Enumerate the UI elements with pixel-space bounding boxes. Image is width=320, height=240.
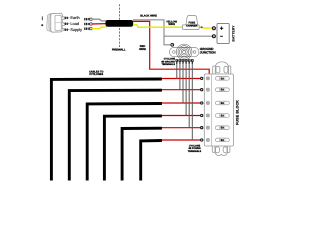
fuse row 6 terminal <box>200 138 203 141</box>
svg-text:WIRE: WIRE <box>139 48 146 51</box>
cyclone cable 4 <box>104 116 161 181</box>
fuse row 4 stud <box>206 114 209 117</box>
cyclone red power wire 3 <box>161 102 201 104</box>
switch OFF marker 0 <box>41 24 43 26</box>
earth bullet connector <box>84 18 92 21</box>
svg-text:WIRE: WIRE <box>168 23 175 26</box>
load terminal leader line <box>64 23 70 25</box>
svg-text:BATTERY: BATTERY <box>231 25 235 42</box>
svg-text:CYCLONES: CYCLONES <box>89 73 103 76</box>
firewall label <box>112 48 126 51</box>
ground terminal strip connector 4 <box>185 59 188 64</box>
cyclone cable 6 <box>141 141 162 181</box>
fuse row 1 stud <box>206 77 209 80</box>
fuse row 5 terminal <box>200 126 203 129</box>
fuse row 2 terminal <box>200 88 203 91</box>
ground terminal strip connector 5 <box>188 59 191 64</box>
svg-text:TERMINALS: TERMINALS <box>162 63 176 66</box>
ground wire 3 <box>182 64 184 103</box>
rocker switch rocker <box>55 15 61 30</box>
svg-text:5A: 5A <box>221 89 224 92</box>
fuse F4 5A <box>215 114 229 118</box>
label CABLES TO CYCLONES <box>89 71 103 77</box>
load bullet connector <box>84 23 92 26</box>
cyclone red power wire 1 <box>161 78 201 80</box>
label GROUND JUNCTION <box>200 47 217 55</box>
svg-text:JUNCTION: JUNCTION <box>200 51 217 55</box>
svg-text:Supply: Supply <box>70 27 82 32</box>
svg-text:4B GROUND: 4B GROUND <box>161 60 175 63</box>
fuse row 3 stud <box>206 101 209 104</box>
label Load <box>70 21 79 26</box>
fuse block top mounting ear <box>213 62 231 74</box>
fuse row 4 terminal <box>200 114 203 117</box>
svg-text:TERMINALS: TERMINALS <box>188 150 202 153</box>
svg-text:Load: Load <box>70 21 79 26</box>
cyclone cable 1 <box>51 79 161 181</box>
cyclone red power wire 6 <box>161 139 201 141</box>
svg-text:5A: 5A <box>221 77 224 80</box>
battery plus terminal <box>212 27 215 30</box>
svg-text:CYCLONE: CYCLONE <box>164 58 176 61</box>
svg-text:Earth: Earth <box>70 15 79 20</box>
battery BT1 <box>217 23 229 43</box>
ground terminal strip connector 3 <box>182 59 185 64</box>
svg-text:FIREWALL: FIREWALL <box>112 48 126 51</box>
yellow wire firewall to battery plus <box>133 25 213 28</box>
fuse F5 5A <box>215 126 229 130</box>
fuse row 5 stud <box>206 126 209 129</box>
fuse row 6 stud <box>206 138 209 141</box>
fuse row 2 stud <box>206 88 209 91</box>
ground terminal strip connector 1 <box>175 59 178 64</box>
svg-text:CARRIER: CARRIER <box>186 24 198 27</box>
ground junction ring terminal <box>171 43 174 46</box>
supply wire to grommet <box>92 27 107 29</box>
ground wire 5 <box>188 64 190 128</box>
svg-text:CYCLONE: CYCLONE <box>189 145 201 148</box>
load wire to grommet <box>92 23 107 25</box>
fuse row 1 terminal <box>200 77 203 80</box>
label RED WIRE <box>139 45 146 51</box>
cyclone red power wire 2 <box>161 89 201 91</box>
fuse row 3 terminal <box>200 101 203 104</box>
black wire branch to battery minus <box>164 35 213 37</box>
svg-text:4B POWER: 4B POWER <box>188 147 201 150</box>
ground terminal strip connector 2 <box>179 59 182 64</box>
label CYCLONE 4B GROUND TERMINALS <box>161 58 175 66</box>
fuse F1 5A <box>215 77 229 81</box>
label YELLOW WIRE <box>166 20 177 26</box>
rocker switch side face <box>47 14 51 31</box>
switch terminal tabs <box>62 17 65 31</box>
fuse carrier F1 <box>182 16 199 30</box>
earth terminal leader line <box>64 17 70 19</box>
label Earth <box>70 15 79 20</box>
supply bullet connector <box>84 27 92 30</box>
ground wire 1 <box>176 64 178 79</box>
ground junction concentric rings <box>176 44 192 60</box>
label CYCLONE 4B POWER TERMINALS <box>188 145 202 153</box>
ground terminal strip connector 6 <box>191 59 194 64</box>
label Supply <box>70 27 82 32</box>
ground junction plate <box>170 47 199 56</box>
cyclone red power wire 5 <box>161 127 201 129</box>
label BATTERY <box>231 25 235 42</box>
ground wire 4 <box>185 64 187 116</box>
cyclone cable 3 <box>87 104 162 181</box>
label FUSE BLOCK <box>236 100 240 125</box>
battery minus terminal <box>212 35 215 38</box>
fuse carrier output terminal <box>201 26 203 28</box>
earth wire to grommet <box>92 19 107 21</box>
rocker switch bezel <box>51 13 62 32</box>
label BLACK WIRE <box>140 14 157 17</box>
cyclone cable 2 <box>69 90 162 180</box>
svg-text:5A: 5A <box>221 115 224 118</box>
fuse F6 5A <box>215 138 229 142</box>
black wire firewall to ground junction <box>133 20 171 45</box>
switch ON marker I <box>41 16 43 20</box>
ground wire 2 <box>179 64 181 90</box>
svg-text:5A: 5A <box>221 127 224 130</box>
svg-text:FUSE BLOCK: FUSE BLOCK <box>236 100 240 125</box>
firewall dashed line <box>118 4 120 47</box>
svg-text:5A: 5A <box>221 102 224 105</box>
ground wire 6 <box>191 64 193 140</box>
supply terminal leader line <box>64 29 70 31</box>
cyclone red power wire 4 <box>161 115 201 117</box>
fuse F2 5A <box>215 88 229 92</box>
fuse F3 5A <box>215 101 229 105</box>
fuse block bottom mounting ear <box>212 146 230 156</box>
svg-text:BLACK WIRE: BLACK WIRE <box>140 14 157 17</box>
cyclone cable 5 <box>122 128 162 180</box>
fuse block body <box>204 74 233 146</box>
red wire firewall to fuse block feed <box>133 21 209 74</box>
firewall grommet <box>106 20 134 27</box>
svg-text:5A: 5A <box>221 139 224 142</box>
